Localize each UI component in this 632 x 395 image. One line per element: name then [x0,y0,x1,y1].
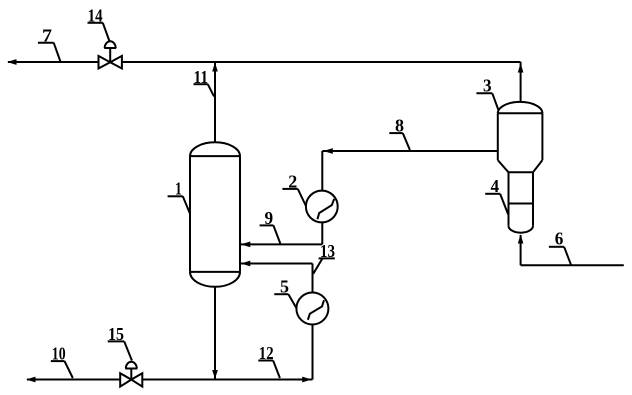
arrow: stream 9 pointing left into vessel 1 [241,242,251,248]
arrow: stream 11 pointing up into top line [212,63,218,72]
label 1 with leader [168,179,190,213]
label 3 with leader [476,76,498,111]
arrow: stream 10 outlet pointing left [26,377,36,383]
label 5 with leader [274,277,296,308]
wire: stream 8 from vessel 3 to exchanger 2 [322,151,498,191]
label 9 with leader [260,208,281,244]
label 4 with leader [485,176,508,214]
label 10 with leader [51,343,73,378]
label 15 with leader [108,324,132,361]
arrow: stream 6 pointing up into vessel 4 [518,234,524,243]
vessel 3 (upper wide body) [498,102,543,172]
wire: from exchanger 5 bottom to bottom line [312,325,314,380]
label 12 with leader [258,343,280,378]
label 14 with leader [88,6,110,42]
wire: vessel 1 bottoms line down [214,287,216,380]
arrow: stream 13 pointing left into vessel 1 [241,261,251,267]
wire: stream 6 feed into vessel 4 bottom [521,235,624,265]
label 13 with leader [313,241,335,274]
label 11 with leader [194,67,215,97]
wire: from exchanger 2 bottom down to stream 9 [321,222,323,244]
valve 14 [99,41,122,68]
valve 15 [120,362,142,387]
svg-text:6: 6 [555,229,564,249]
heat exchanger 2 [306,191,338,223]
wire: vertical from top line corner down to vessel 3 [520,62,522,103]
wire: stream 9 into vessel 1 [241,243,323,245]
arrow: pointing up toward top line [518,63,524,73]
wire: stream 11 vertical from vessel 1 top [214,62,216,143]
arrow: stream 12 pointing right into reboiler riser [302,377,312,383]
wire: stream 13 into vessel 1 and corner down to exchanger 5 [241,264,313,293]
wire: top overhead line (stream 7) [8,61,521,63]
label 2 with leader [282,171,306,206]
vessel 4 (lower narrow section) [509,172,534,232]
arrow: pointing down into bottom line [212,370,218,379]
wire: bottom line (streams 10/12) [27,379,313,381]
arrow: stream 8 pointing left at corner [323,148,333,154]
label 8 with leader [389,115,410,150]
heat exchanger 5 [296,293,328,325]
label 7 with leader [38,25,61,61]
vessel 1 (column) [190,142,240,286]
arrow: stream 7 outlet pointing left [7,59,17,65]
label 6 with leader [549,229,571,265]
